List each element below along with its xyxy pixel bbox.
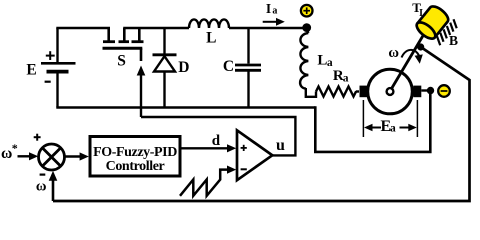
inductor L [189, 19, 229, 46]
wire top rail left [56, 27, 110, 29]
return wire motor to rail [315, 94, 430, 152]
svg-text:a: a [272, 5, 277, 16]
motor shaft [391, 34, 424, 90]
svg-text:B: B [449, 33, 458, 48]
controller block [90, 137, 180, 177]
svg-text:C: C [223, 58, 234, 75]
svg-text:*: * [12, 141, 18, 155]
svg-text:ω: ω [36, 178, 47, 194]
feedback wire from shaft sensor [53, 48, 470, 202]
battery E [26, 28, 75, 108]
svg-text:ω: ω [388, 45, 399, 61]
rotation arrow omega [388, 45, 422, 64]
wire Ra to motor [356, 90, 359, 92]
svg-text:u: u [276, 137, 285, 154]
feedback up arrow into summer [49, 171, 58, 201]
shaft node dot [417, 43, 424, 50]
voltage Ea dimension [363, 100, 417, 137]
terminal + (armature positive) [301, 5, 313, 17]
motor M (armature) [360, 69, 422, 114]
svg-text:S: S [117, 52, 126, 69]
transistor switch S [103, 28, 144, 69]
wire d controller to comparator [180, 133, 236, 152]
wire summer to controller [65, 152, 89, 160]
svg-text:D: D [178, 59, 189, 76]
svg-text:Controller: Controller [106, 159, 165, 174]
setpoint omega* [1, 141, 18, 162]
svg-text:E: E [26, 62, 36, 79]
sawtooth carrier input [180, 166, 236, 196]
svg-text:FO-Fuzzy-PID: FO-Fuzzy-PID [93, 145, 177, 160]
svg-text:I: I [266, 1, 271, 16]
node junction dot [302, 23, 311, 32]
input arrow [18, 152, 39, 160]
svg-text:L: L [419, 8, 426, 19]
svg-text:a: a [390, 122, 396, 134]
terminal - (armature negative) [438, 85, 450, 97]
resistor Ra [316, 68, 356, 97]
friction hatching B [437, 19, 457, 45]
current Ia arrow [263, 1, 285, 26]
summing junction [34, 134, 65, 175]
svg-text:a: a [343, 73, 349, 85]
svg-text:d: d [212, 133, 221, 149]
wire u route comparator to gate [141, 117, 295, 155]
junction dot right [427, 87, 434, 94]
load cylinder TL [414, 3, 451, 41]
wire gate drive u with up arrow [137, 66, 146, 118]
wire motor to minus terminal [421, 89, 428, 91]
svg-text:ω: ω [1, 145, 12, 162]
capacitor C [223, 28, 261, 108]
svg-text:L: L [206, 29, 216, 46]
diode D [153, 28, 190, 108]
comparator U1 [237, 130, 272, 180]
inductor La [300, 28, 333, 97]
wire rail L to node [229, 27, 305, 29]
wire top rail right [123, 27, 189, 29]
bottom power rail [56, 106, 315, 109]
